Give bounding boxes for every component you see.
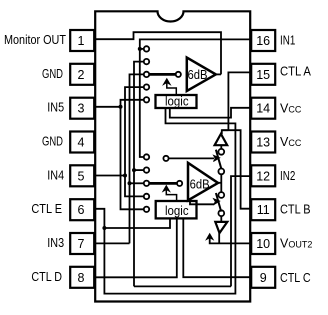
mute M1 contact circle upper <box>218 149 224 155</box>
switch S2 contact 4 circle <box>144 194 149 199</box>
wire selected input S2 (thick) to amp U2 input <box>149 182 177 185</box>
mute M2 control line from logic2 <box>190 201 214 205</box>
logic box 1 <box>156 95 197 108</box>
wire pin15 CTL A down to diode D1 node <box>228 72 250 130</box>
svg-text:7: 7 <box>78 237 85 251</box>
svg-text:logic: logic <box>165 94 189 109</box>
wire amp U2 output stub <box>218 182 222 184</box>
svg-text:IN3: IN3 <box>47 236 64 250</box>
pin 6 box <box>70 199 94 220</box>
pin 3 box <box>70 98 94 119</box>
svg-text:6dB: 6dB <box>188 67 208 82</box>
svg-text:CTL D: CTL D <box>31 270 62 284</box>
svg-text:GND: GND <box>42 135 63 149</box>
wire IN4 bus: S1 contact4 stub down through pin5 to S2 contact4 <box>125 87 144 196</box>
switch S1 contact 4 circle <box>144 84 149 89</box>
wire pin5 IN4 <box>95 175 125 177</box>
svg-text:9: 9 <box>260 271 267 285</box>
amp U1 input circle <box>176 72 181 77</box>
switch S1 contact 1 circle <box>144 46 149 51</box>
wire logic1 control feed from CTL E riser <box>95 108 235 294</box>
mute M1 control arrowhead <box>213 155 219 161</box>
svg-text:logic: logic <box>165 203 189 218</box>
node IN5 junction dot at pin3 wire <box>119 105 123 109</box>
pin 15 box <box>251 64 275 85</box>
pin 13 box <box>251 132 275 153</box>
wire S2 contact3 stub <box>130 182 144 184</box>
pin 2 box <box>70 64 94 85</box>
wire CTL E branch to logic2 <box>104 218 170 228</box>
node IN3 bus junction dot at S2 contact 3 <box>128 181 132 185</box>
pin 1 box <box>70 30 94 51</box>
switch S2 contact 1 circle <box>144 154 149 159</box>
logic box 2 <box>156 201 197 218</box>
wire IN2 bottom run to riser <box>134 285 231 287</box>
mute M2 contact circle lower <box>218 210 224 216</box>
wire D2 apex down to pin10 VOUT2 line <box>218 233 220 244</box>
node CTL E junction dot <box>102 226 106 230</box>
pin 8 box <box>70 267 94 288</box>
svg-text:12: 12 <box>256 169 270 183</box>
svg-text:6: 6 <box>78 203 85 217</box>
svg-text:GND: GND <box>42 67 63 81</box>
svg-text:4: 4 <box>78 136 85 150</box>
switch S1 contact 3 circle <box>144 72 149 77</box>
IC body outline with notch <box>95 11 250 301</box>
wire pin1 Monitor OUT to amp U1 output (with jog over IN1 wire) <box>95 32 221 74</box>
pin 5 box <box>70 165 94 186</box>
pin10 line arrowhead pointing up <box>206 234 213 240</box>
switch S2 contact 5 circle <box>144 207 149 212</box>
wire IN3 bus: S1 contact3 stub down to pin7 <box>130 74 144 243</box>
svg-text:IN5: IN5 <box>47 101 64 115</box>
svg-text:11: 11 <box>257 203 270 217</box>
pin 9 box <box>251 267 275 288</box>
op-amp U2 triangle <box>188 163 218 201</box>
svg-text:8: 8 <box>78 271 85 285</box>
svg-text:2: 2 <box>78 68 85 82</box>
wire D1 base to M1 upper contact <box>220 145 222 149</box>
node IN4 junction dot at pin5 wire <box>123 174 127 178</box>
svg-text:CTL E: CTL E <box>31 202 62 216</box>
mute M2 arm <box>216 193 221 212</box>
switch S1 contact 5 circle <box>144 97 149 102</box>
svg-text:Monitor OUT: Monitor OUT <box>4 33 66 47</box>
pin 14 box <box>251 98 275 119</box>
wire S2 contact2 stub <box>134 169 144 171</box>
wire logic2 to pin9 CTL C <box>183 219 250 278</box>
svg-text:10: 10 <box>256 237 270 251</box>
pin 11 box <box>251 199 275 220</box>
wire IN1 dot to contact stub <box>140 48 144 50</box>
wire pin7 IN3 <box>95 242 130 244</box>
pin 10 box <box>251 233 275 254</box>
arrow from logic1 to switch S1 wiper <box>163 79 176 95</box>
wire pin12 IN2 riser <box>231 176 250 286</box>
wire D1 node left leg <box>222 129 228 131</box>
wire pin8 CTL D into logic2 <box>95 219 177 278</box>
svg-text:3: 3 <box>78 102 85 116</box>
wire IN5 bus: S1 contact5 stub down through pin3 to S2 contact5 <box>121 100 144 210</box>
wire D1 apex node line to pin11 CTL B <box>222 130 250 209</box>
wire logic1 Vcc feed: pin14 down and left into logic1 <box>170 108 250 118</box>
svg-text:5: 5 <box>78 169 85 183</box>
mute M1 contact circle lower <box>218 169 224 175</box>
svg-text:VOUT2: VOUT2 <box>280 236 312 250</box>
mute M1 arm <box>216 150 221 169</box>
switch S2 contact 3 circle <box>144 181 149 186</box>
mute switch M1 control line with circle <box>163 156 168 161</box>
pin 7 box <box>70 233 94 254</box>
amp U2 input circle <box>177 181 182 186</box>
pin 4 box <box>70 132 94 153</box>
svg-text:VCC: VCC <box>280 101 302 115</box>
wire M1 lower contact to amp U2 output node <box>220 174 222 192</box>
switch S1 contact 2 circle <box>144 59 149 64</box>
wire IN2 bus: S1 contact2 stub down through S2 contact2 to bottom <box>134 62 144 287</box>
arrow from logic2 to switch S2 wiper <box>163 186 177 201</box>
wire selected input S1 (thick) to amp U1 input <box>149 73 176 76</box>
wire pin3 IN5 <box>95 106 121 108</box>
wire IN1 vertical to lower switch S2 contact 1 <box>140 49 144 157</box>
svg-text:6dB: 6dB <box>190 177 210 192</box>
diode D2 (to VOUT2) pointing down <box>215 222 227 233</box>
pin 16 box <box>251 30 275 51</box>
node IN2 bus junction dot at S2 contact 2 <box>132 168 136 172</box>
svg-text:IN4: IN4 <box>47 168 64 182</box>
svg-text:14: 14 <box>256 102 270 116</box>
wire amp U1 output stub <box>216 73 221 75</box>
svg-text:15: 15 <box>256 68 270 82</box>
switch S2 contact 2 circle <box>144 167 149 172</box>
svg-text:CTL C: CTL C <box>280 271 311 285</box>
svg-text:CTL B: CTL B <box>280 203 311 217</box>
wire pin16 IN1 into switch bus <box>140 39 250 49</box>
op-amp U1 triangle <box>187 58 216 91</box>
svg-text:1: 1 <box>78 34 85 48</box>
diode D1 (to CTL B) pointing up <box>215 134 228 145</box>
svg-text:IN2: IN2 <box>280 169 295 183</box>
mute M2 contact circle upper <box>218 192 224 198</box>
svg-text:13: 13 <box>256 136 270 150</box>
svg-text:IN1: IN1 <box>280 33 295 47</box>
wire M2 lower contact to D2 base <box>220 216 222 222</box>
mute M2 control arrowhead <box>213 199 219 205</box>
node IN1 junction dot at switch S1 contact 1 <box>138 47 142 51</box>
wire pin10 VOUT2 <box>210 238 251 244</box>
pin 12 box <box>251 165 275 186</box>
svg-text:VCC: VCC <box>280 135 302 149</box>
svg-text:CTL A: CTL A <box>280 65 311 79</box>
svg-text:16: 16 <box>256 34 270 48</box>
